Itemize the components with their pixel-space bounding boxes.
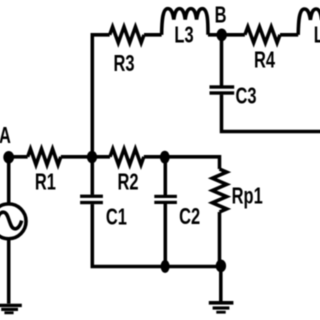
wire junction1 down to C1 — [91, 157, 95, 195]
svg-text:B: B — [215, 3, 227, 28]
ground right bars — [209, 301, 234, 305]
wire C2 bottom to rail — [164, 204, 168, 267]
AC source sine wave — [0, 212, 22, 229]
resistor R2 — [110, 149, 144, 165]
resistor R1 — [28, 149, 61, 165]
wire Rp1 to bottom rail — [218, 212, 222, 267]
svg-text:L3: L3 — [174, 23, 193, 48]
svg-text:C3: C3 — [235, 84, 256, 109]
wire R3 to L3 — [144, 33, 162, 37]
wire source to left ground — [7, 239, 11, 304]
svg-text:R4: R4 — [254, 48, 276, 73]
rail junction dot left — [161, 260, 170, 273]
wire C3 bottom to right edge — [222, 95, 320, 132]
resistor R3 — [110, 27, 144, 43]
wire R2 through junction2 to Rp1 corner — [144, 157, 220, 169]
wire L3 to node B — [208, 33, 245, 37]
wire C1 bottom + bottom rail — [92, 204, 221, 266]
svg-text:Rp1: Rp1 — [232, 184, 263, 209]
wire riser junction1 to top rail — [92, 35, 109, 157]
wire R4 to right inductor — [280, 33, 298, 37]
junction dot 2 — [160, 151, 170, 164]
wire node B down to C3 — [220, 35, 224, 86]
svg-text:R3: R3 — [113, 51, 134, 76]
svg-text:R2: R2 — [117, 170, 138, 195]
AC source V1 circle — [0, 204, 26, 239]
wire ground stub right — [219, 267, 223, 302]
resistor Rp1 — [212, 169, 226, 212]
inductor L4 (clipped at right edge) — [298, 9, 320, 35]
main wire node A to R1 — [9, 155, 28, 159]
inductor L3 — [162, 9, 208, 35]
capacitor C2 plates — [154, 195, 177, 198]
rail junction dot right — [216, 260, 226, 273]
svg-text:A: A — [0, 123, 11, 148]
svg-text:L: L — [314, 23, 320, 48]
svg-text:R1: R1 — [35, 170, 56, 195]
node B dot — [217, 29, 227, 42]
resistor R4 — [245, 27, 280, 43]
svg-text:C2: C2 — [179, 205, 200, 230]
capacitor C1 plates — [80, 195, 103, 198]
node A dot — [3, 151, 14, 164]
wire node A down to source — [7, 157, 11, 204]
wire R1 to R2 through junction1 — [61, 155, 110, 159]
svg-text:C1: C1 — [106, 205, 127, 230]
wire junction2 down to C2 — [164, 157, 168, 195]
capacitor C3 plates — [210, 85, 235, 88]
junction dot 1 — [87, 151, 97, 164]
ground left bars — [0, 304, 22, 307]
